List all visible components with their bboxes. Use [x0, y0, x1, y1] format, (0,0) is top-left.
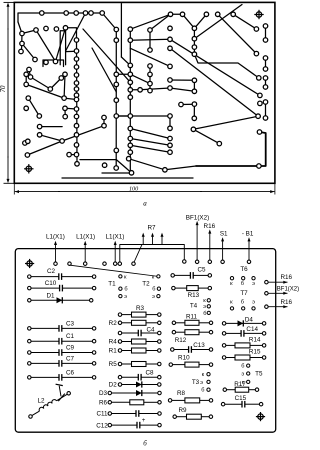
node pad with diagonal wire — [68, 262, 158, 276]
pad — [168, 64, 173, 69]
wire — [22, 44, 35, 60]
svg-text:C13: C13 — [193, 342, 205, 349]
pad — [128, 95, 133, 100]
pad — [74, 152, 79, 157]
svg-text:R16: R16 — [281, 299, 293, 306]
pad — [254, 27, 259, 32]
wire — [27, 141, 62, 155]
svg-text:R15: R15 — [249, 348, 261, 355]
svg-text:R6: R6 — [99, 400, 108, 407]
svg-text:б: б — [241, 281, 244, 287]
wire — [193, 129, 219, 143]
pad — [148, 28, 153, 33]
pad — [20, 41, 25, 46]
svg-text:BF1(X2): BF1(X2) — [186, 214, 209, 221]
pad — [89, 11, 94, 16]
svg-text:R9: R9 — [178, 407, 187, 414]
pad — [128, 72, 133, 77]
svg-text:R7: R7 — [147, 224, 156, 231]
pad — [128, 136, 133, 141]
wire — [130, 48, 170, 66]
svg-text:R16: R16 — [204, 223, 216, 230]
pad — [263, 67, 268, 72]
svg-text:C6: C6 — [66, 369, 75, 376]
resistor R14 — [222, 336, 266, 348]
registration mark top-left — [25, 259, 34, 268]
connector R7 (three arrows) — [132, 224, 164, 265]
wire — [25, 141, 28, 143]
resistor R6 — [99, 400, 161, 407]
wire — [218, 14, 257, 53]
wire — [193, 104, 195, 118]
pad — [37, 124, 42, 129]
resistor R4 — [109, 339, 161, 346]
wire — [130, 38, 170, 41]
wire — [36, 28, 66, 62]
resistor R8 — [168, 390, 212, 403]
wire — [116, 160, 131, 173]
svg-text:R13: R13 — [188, 292, 200, 299]
pad — [180, 12, 185, 16]
pad — [34, 28, 39, 33]
pad — [27, 67, 32, 72]
svg-text:D3: D3 — [99, 390, 108, 397]
pad — [192, 102, 197, 107]
capacitor C11 — [96, 410, 161, 418]
svg-text:R5: R5 — [109, 361, 118, 368]
pad — [168, 136, 173, 141]
transistor T4 — [190, 298, 211, 317]
wire — [265, 58, 267, 69]
pad — [217, 141, 222, 146]
transistor T7 — [230, 290, 255, 310]
wire — [170, 48, 258, 116]
pad — [254, 51, 259, 56]
pad — [63, 72, 68, 77]
svg-text:R17: R17 — [234, 381, 246, 388]
wire — [193, 80, 195, 91]
registration mark bottom-left — [24, 164, 33, 173]
svg-text:D2: D2 — [109, 382, 118, 389]
pad — [74, 133, 79, 138]
pad — [138, 88, 143, 93]
wire — [233, 14, 256, 29]
svg-text:C8: C8 — [145, 369, 154, 376]
connector R16 (right lower) — [265, 299, 293, 309]
svg-text:C9: C9 — [66, 345, 75, 352]
wire — [121, 57, 130, 65]
pad — [62, 96, 67, 101]
svg-text:C12: C12 — [96, 422, 108, 429]
pad — [26, 139, 31, 144]
pad — [24, 82, 29, 87]
pad — [263, 56, 268, 61]
pad — [148, 48, 153, 53]
svg-text:C3: C3 — [66, 320, 75, 327]
component board outline — [15, 249, 275, 433]
pad — [128, 126, 133, 131]
connector L1(X1) no.2 — [76, 234, 95, 266]
diode D4 — [222, 316, 266, 326]
transistor T3 — [192, 372, 210, 394]
pad — [128, 38, 133, 43]
pad — [74, 65, 79, 70]
svg-text:R4: R4 — [109, 339, 118, 346]
capacitor C4 — [118, 327, 161, 337]
connector R16 (top) — [204, 223, 216, 264]
pad — [19, 49, 24, 54]
wire — [63, 74, 66, 98]
wire — [116, 115, 130, 117]
registration mark top-right — [254, 10, 263, 19]
capacitor C2 — [28, 268, 96, 280]
dimension 70 (left) — [0, 2, 14, 183]
svg-text:C7: C7 — [66, 355, 75, 362]
pad — [192, 45, 197, 50]
resistor R9 — [173, 407, 213, 419]
wire — [80, 159, 116, 161]
svg-text:70: 70 — [0, 85, 7, 93]
pad — [74, 93, 79, 98]
connector R16 (right upper) — [265, 274, 293, 284]
svg-text:- B1: - B1 — [242, 231, 254, 238]
svg-text:э: э — [241, 371, 244, 377]
resistor R2 — [109, 320, 161, 327]
svg-text:э: э — [252, 299, 255, 305]
pad — [64, 11, 69, 16]
pad — [168, 37, 173, 42]
wire — [130, 89, 140, 91]
wire — [115, 30, 117, 169]
pad — [74, 97, 79, 102]
pad — [83, 11, 88, 16]
svg-text:R1: R1 — [109, 348, 118, 355]
svg-text:C4: C4 — [146, 327, 155, 334]
connector -B1 — [242, 231, 254, 264]
svg-text:R8: R8 — [177, 390, 186, 397]
wire — [193, 28, 195, 54]
wire — [116, 73, 130, 75]
wire — [60, 31, 65, 65]
pad — [63, 106, 68, 111]
pad — [74, 11, 79, 16]
svg-text:C14: C14 — [246, 326, 258, 333]
pad — [192, 78, 197, 83]
wire — [26, 84, 64, 98]
svg-text:S1: S1 — [220, 231, 228, 238]
pad — [128, 143, 133, 148]
capacitor C10 — [28, 280, 96, 291]
wire — [25, 74, 27, 84]
svg-text:T5: T5 — [255, 370, 263, 377]
capacitor C14 — [222, 326, 266, 337]
pad — [204, 12, 209, 16]
pad — [128, 63, 133, 68]
pad — [257, 130, 262, 135]
capacitor C12 electrolytic — [96, 417, 161, 429]
capacitor C5 — [171, 266, 212, 278]
pad — [258, 93, 263, 98]
svg-text:б: б — [124, 287, 127, 293]
svg-text:б: б — [203, 311, 206, 317]
pad — [100, 11, 105, 16]
pad — [114, 166, 119, 171]
wire — [130, 74, 150, 83]
capacitor C8 — [118, 369, 161, 380]
wire — [171, 13, 183, 15]
wire — [62, 126, 104, 141]
wire — [149, 30, 151, 50]
resistor R1 — [109, 348, 161, 355]
pad — [28, 75, 33, 80]
pad — [74, 49, 79, 54]
PCB board outline — [14, 2, 275, 183]
pad — [126, 156, 131, 161]
pad — [74, 143, 79, 148]
svg-text:э: э — [252, 281, 255, 287]
wire — [76, 40, 79, 164]
wire — [28, 98, 39, 116]
transistor T1 — [108, 274, 127, 300]
wire — [50, 78, 61, 89]
pad — [74, 73, 79, 78]
svg-text:C1: C1 — [66, 333, 75, 340]
resistor R12 — [172, 330, 213, 344]
wire — [120, 4, 122, 57]
pad — [63, 26, 68, 31]
thick ground trace — [196, 132, 266, 166]
svg-text:R10: R10 — [178, 355, 190, 362]
wire — [43, 60, 64, 67]
pad — [257, 164, 262, 169]
pad — [67, 152, 72, 157]
wire — [65, 107, 77, 110]
solder pads — [19, 11, 268, 175]
wire — [18, 13, 42, 22]
svg-text:б: б — [143, 439, 147, 447]
pad — [114, 27, 119, 32]
pad — [168, 78, 173, 83]
dimension 100 (bottom) — [14, 183, 275, 194]
wire — [265, 102, 267, 118]
wire riser to R7 bus — [118, 245, 186, 266]
capacitor C3 — [28, 320, 96, 331]
pad — [53, 59, 58, 64]
resistor R3 — [118, 305, 161, 317]
wire — [62, 177, 193, 179]
pad — [263, 85, 268, 90]
diode D3 — [99, 390, 161, 397]
pad — [263, 76, 268, 81]
wire — [116, 116, 170, 128]
wire — [40, 135, 63, 141]
svg-text:э: э — [200, 380, 203, 386]
wire — [129, 159, 165, 170]
pad — [24, 72, 29, 77]
resistor R15 — [222, 348, 266, 360]
svg-text:R14: R14 — [249, 336, 261, 343]
pad — [168, 143, 173, 148]
pad — [168, 150, 173, 155]
pad — [191, 127, 196, 132]
capacitor C13 — [171, 342, 213, 353]
wire — [183, 14, 195, 28]
wire — [140, 88, 170, 90]
svg-text:C5: C5 — [197, 266, 206, 273]
pad — [20, 31, 25, 36]
pad — [59, 76, 64, 81]
capacitor C6 — [28, 369, 96, 380]
svg-text:L1(X1): L1(X1) — [46, 234, 65, 241]
pad — [263, 24, 268, 29]
wire — [170, 79, 194, 81]
connector L1(X1) no.3 — [105, 234, 124, 266]
pad — [23, 141, 28, 146]
pad — [192, 26, 197, 31]
svg-text:б: б — [241, 299, 244, 305]
svg-text:T7: T7 — [240, 290, 248, 297]
pad — [263, 38, 268, 43]
pad — [128, 80, 133, 85]
svg-text:T1: T1 — [108, 280, 116, 287]
svg-text:C15: C15 — [235, 395, 247, 402]
svg-text:T6: T6 — [240, 266, 248, 273]
pad — [114, 98, 119, 103]
pad — [128, 114, 133, 119]
svg-text:э: э — [152, 294, 155, 300]
pad — [74, 38, 79, 43]
pad — [192, 116, 197, 121]
pad — [75, 162, 80, 167]
pad — [74, 107, 79, 112]
pad — [24, 106, 29, 111]
wire — [102, 13, 116, 30]
wire — [64, 98, 76, 99]
connector BF1(X2) — [186, 214, 209, 263]
connector S1 — [220, 231, 228, 264]
pad — [179, 102, 184, 107]
pad — [48, 87, 53, 92]
svg-text:а: а — [143, 200, 147, 208]
pad — [231, 12, 236, 16]
pad — [215, 12, 220, 16]
wire — [170, 39, 260, 95]
wire — [40, 126, 63, 128]
pad — [128, 88, 133, 93]
diode D2 — [109, 381, 161, 388]
wire — [29, 70, 31, 78]
pad — [192, 89, 197, 94]
wire — [265, 78, 267, 87]
pad — [148, 64, 153, 69]
pad — [74, 123, 79, 128]
svg-text:R2: R2 — [109, 320, 118, 327]
pad — [114, 148, 119, 153]
svg-text:R11: R11 — [186, 314, 198, 321]
pad — [128, 150, 133, 155]
resistor R10 — [169, 355, 213, 368]
wire — [26, 74, 30, 77]
pad — [256, 114, 261, 119]
pad — [54, 27, 59, 32]
wire — [66, 28, 77, 40]
svg-text:L1(X1): L1(X1) — [105, 234, 124, 241]
pad — [263, 100, 268, 105]
pad — [192, 52, 197, 57]
capacitor C1 — [28, 333, 96, 344]
pad — [114, 114, 119, 119]
svg-text:100: 100 — [129, 185, 139, 192]
wire — [83, 29, 130, 82]
pad — [148, 81, 153, 86]
svg-text:T4: T4 — [190, 303, 198, 310]
wire — [102, 172, 132, 174]
pad — [44, 26, 49, 31]
wire — [150, 14, 171, 30]
transistor T6 — [230, 266, 255, 287]
wire — [22, 30, 36, 34]
pad — [40, 11, 45, 16]
pad — [37, 133, 42, 138]
pad — [129, 171, 134, 176]
svg-text:C11: C11 — [96, 411, 108, 418]
wire — [130, 145, 170, 152]
connector BF1(X2) right — [265, 286, 299, 295]
pad — [74, 81, 79, 86]
wire — [18, 22, 22, 34]
svg-text:э: э — [203, 304, 206, 310]
pad — [192, 36, 197, 41]
capacitor C15 — [221, 395, 263, 407]
registration mark bottom-right — [256, 412, 265, 421]
capacitor C7 — [28, 355, 96, 366]
connector L1(X1) no.1 — [46, 234, 65, 266]
pad — [128, 27, 133, 32]
wire — [265, 26, 267, 40]
svg-text:R12: R12 — [175, 337, 187, 344]
pad — [258, 101, 263, 106]
pad — [74, 57, 79, 62]
svg-text:T3: T3 — [192, 379, 200, 386]
pad — [102, 123, 107, 128]
svg-text:R3: R3 — [136, 305, 145, 312]
pad — [168, 126, 173, 131]
wire — [66, 13, 86, 51]
wire — [64, 108, 66, 116]
node pad — [103, 262, 107, 266]
svg-text:C2: C2 — [47, 268, 56, 275]
wire — [103, 118, 105, 126]
pad — [102, 115, 107, 120]
svg-text:б: б — [241, 364, 244, 370]
pad — [25, 153, 30, 158]
svg-text:э: э — [124, 294, 127, 300]
pad — [168, 26, 173, 31]
wire — [193, 116, 258, 129]
pad — [168, 46, 173, 51]
transistor T2 — [142, 274, 160, 300]
wire — [130, 14, 170, 29]
pad — [263, 116, 268, 121]
pad — [102, 163, 107, 168]
svg-text:L2: L2 — [37, 398, 45, 405]
svg-text:б: б — [152, 287, 155, 293]
wire — [165, 166, 196, 170]
wire — [149, 66, 151, 91]
wire — [92, 48, 116, 92]
pad — [33, 57, 38, 62]
wire — [61, 74, 65, 78]
